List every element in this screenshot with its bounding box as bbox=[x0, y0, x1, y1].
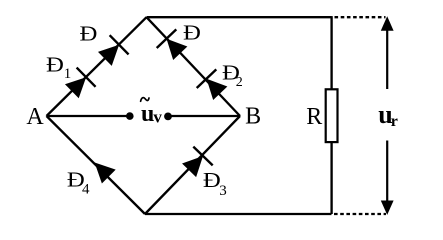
wire right source terminal to B bbox=[168, 115, 240, 117]
svg-text:R: R bbox=[306, 104, 322, 130]
svg-text:u: u bbox=[141, 101, 154, 127]
diode D upper-right bbox=[157, 29, 190, 62]
diode D3 bbox=[179, 147, 212, 180]
label D4 bbox=[67, 168, 85, 191]
wire dashed bottom bbox=[334, 213, 386, 215]
wire dashed top bbox=[335, 16, 386, 18]
label tilde over uv bbox=[141, 98, 149, 102]
wire A to left source terminal bbox=[47, 115, 131, 117]
svg-text:Đ: Đ bbox=[80, 22, 98, 45]
wire diamond edge A-top bbox=[47, 17, 147, 116]
diode D2 bbox=[197, 69, 230, 102]
svg-text:2: 2 bbox=[236, 75, 243, 90]
svg-text:1: 1 bbox=[64, 66, 72, 82]
wire bottom horizontal bbox=[145, 213, 332, 215]
u_r arrow down bbox=[381, 141, 394, 215]
svg-text:3: 3 bbox=[219, 183, 227, 199]
label D (upper-left diode) bbox=[80, 22, 98, 45]
svg-text:A: A bbox=[26, 104, 44, 130]
diode D1 bbox=[62, 68, 95, 101]
wire top horizontal bbox=[147, 16, 332, 18]
diode D4 (arrow only) bbox=[88, 156, 116, 184]
label D1 bbox=[46, 53, 64, 76]
svg-text:v: v bbox=[153, 107, 162, 126]
wire right vertical lower bbox=[330, 141, 332, 214]
node source terminal left bbox=[126, 112, 134, 120]
svg-text:Đ: Đ bbox=[183, 21, 201, 44]
label D3 bbox=[203, 169, 221, 192]
label D2 bbox=[222, 61, 240, 84]
svg-text:r: r bbox=[391, 113, 398, 130]
wire diamond edge bottom-B bbox=[145, 116, 240, 214]
svg-text:Đ: Đ bbox=[203, 169, 221, 192]
wire diamond edge A-bottom bbox=[47, 116, 146, 214]
u_r arrow up bbox=[381, 16, 394, 89]
wire diamond edge top-B bbox=[147, 17, 241, 116]
label D (upper-right diode) bbox=[183, 21, 201, 44]
diode D upper-left bbox=[95, 35, 128, 68]
svg-text:Đ: Đ bbox=[46, 53, 64, 76]
wire right vertical upper bbox=[330, 16, 332, 90]
svg-text:4: 4 bbox=[82, 181, 90, 197]
svg-text:B: B bbox=[245, 104, 261, 130]
resistor R bbox=[326, 89, 338, 142]
node source terminal right bbox=[164, 113, 172, 121]
